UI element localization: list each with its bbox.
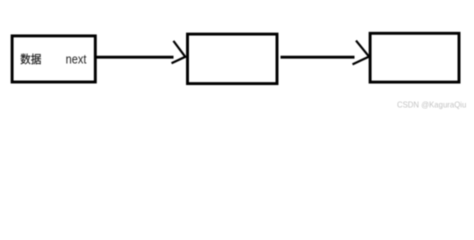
svg-text:CSDN @KaguraQiu: CSDN @KaguraQiu xyxy=(397,100,466,109)
label 数据 (data field of node 1) xyxy=(21,54,41,65)
node 1 box xyxy=(12,36,95,82)
arrowhead 1 xyxy=(172,41,186,63)
node 3 box xyxy=(370,33,459,82)
wire: arrow 1 shaft from node 1 to node 2 xyxy=(95,56,173,59)
arrowhead 2 xyxy=(353,41,370,65)
wire: arrow 2 shaft from node 2 to node 3 xyxy=(281,56,355,59)
node 2 box xyxy=(188,34,278,84)
svg-text:next: next xyxy=(66,52,87,67)
